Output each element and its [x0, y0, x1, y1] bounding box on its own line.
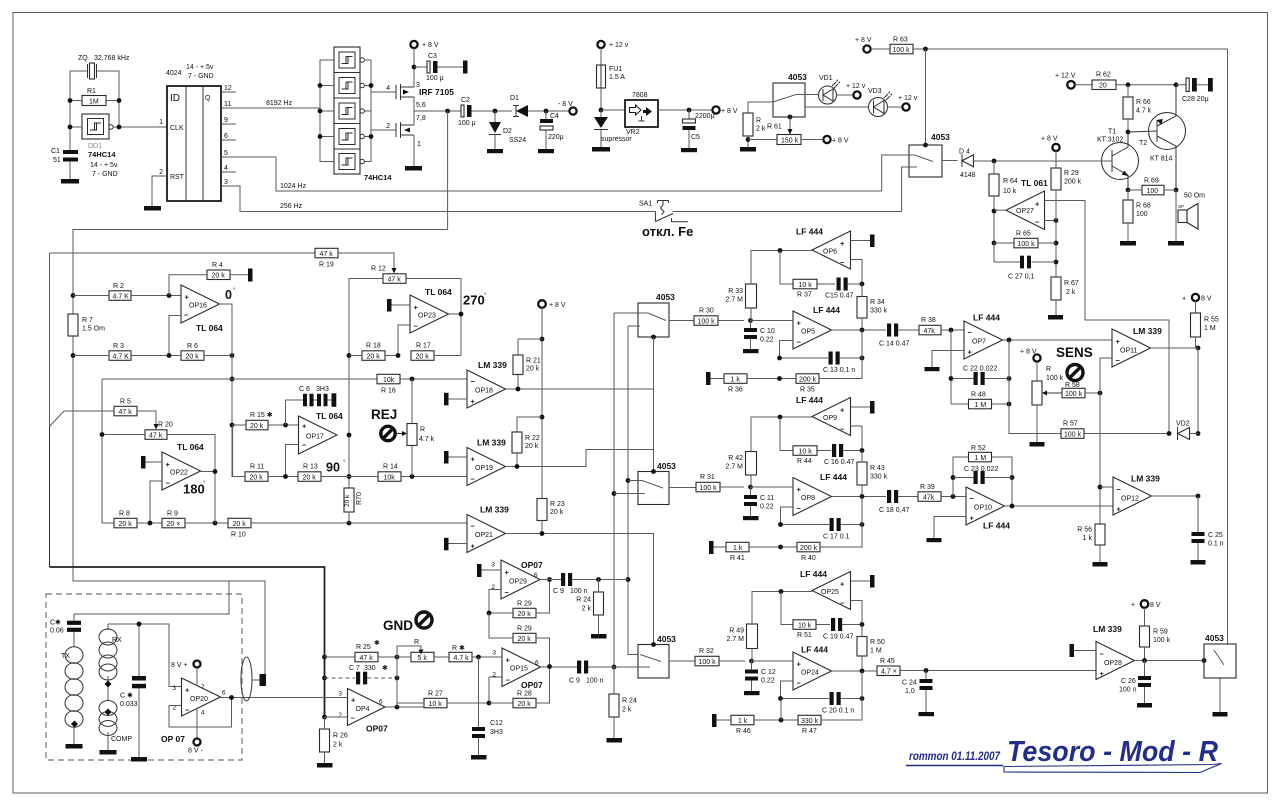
wire left bus x73	[72, 296, 74, 582]
svg-text:−: −	[506, 676, 511, 685]
svg-text:100 k: 100 k	[700, 485, 718, 492]
svg-text:1.5 A: 1.5 A	[609, 74, 625, 81]
svg-text:4: 4	[201, 710, 205, 717]
svg-text:T1: T1	[1108, 129, 1116, 136]
svg-text:7: 7	[201, 684, 205, 691]
op-amp U OP29	[501, 560, 540, 599]
terminal +8V psu	[712, 106, 719, 113]
svg-text:R 6: R 6	[187, 343, 198, 350]
svg-text:32,768 kHz: 32,768 kHz	[94, 55, 130, 62]
op-amp U OP18	[467, 370, 506, 408]
wire left bus x49	[50, 253, 316, 427]
wire OP28 out	[1135, 660, 1205, 662]
resistor R14	[378, 472, 401, 482]
svg-text:TL 064: TL 064	[196, 323, 223, 333]
svg-text:C 9: C 9	[569, 678, 580, 685]
svg-text:+: +	[970, 514, 975, 523]
svg-text:R 46: R 46	[736, 728, 751, 735]
svg-text:−: −	[471, 522, 476, 531]
resistor R2	[109, 291, 131, 301]
wire R1 row	[70, 100, 82, 102]
capacitor C2	[461, 105, 464, 117]
svg-text:R 66: R 66	[1136, 99, 1151, 106]
svg-text:2.7 M: 2.7 M	[725, 464, 743, 471]
wire OP7 plus to ground	[932, 351, 964, 368]
resistor R26	[320, 729, 330, 752]
svg-text:R1: R1	[87, 88, 96, 95]
svg-text:supressor: supressor	[601, 136, 632, 143]
svg-text:2 k: 2 k	[333, 742, 343, 749]
svg-text:✱: ✱	[382, 664, 388, 672]
svg-text:100 k: 100 k	[1153, 637, 1171, 644]
wire bus x628	[628, 326, 638, 655]
op-amp U OP4	[348, 689, 386, 726]
svg-text:6: 6	[222, 690, 226, 697]
svg-text:OP6: OP6	[823, 249, 837, 256]
wire OP15 minus	[489, 677, 502, 703]
svg-text:Tesoro - Mod - R: Tesoro - Mod - R	[1007, 736, 1218, 768]
svg-text:°: °	[203, 479, 206, 487]
svg-text:FU1: FU1	[609, 66, 622, 73]
svg-text:OP18: OP18	[475, 388, 493, 395]
svg-text:R: R	[756, 118, 761, 125]
svg-text:R 43: R 43	[870, 465, 885, 472]
svg-text:74HC14: 74HC14	[364, 173, 392, 182]
resistor R68	[1127, 190, 1129, 200]
svg-text:4.7 k: 4.7 k	[1136, 108, 1152, 115]
svg-text:R 62: R 62	[1096, 72, 1111, 79]
svg-text:+: +	[1116, 337, 1121, 346]
svg-text:C12: C12	[490, 720, 503, 727]
svg-text:R 2: R 2	[113, 283, 124, 290]
wire 256Hz left of SA1	[236, 186, 655, 212]
switch 4053 ctrl	[909, 145, 942, 177]
svg-text:330 k: 330 k	[870, 474, 888, 481]
svg-text:R 33: R 33	[728, 288, 743, 295]
svg-text:8 V -: 8 V -	[188, 748, 203, 755]
wire VD2 column	[1197, 348, 1199, 434]
svg-text:−: −	[414, 322, 419, 331]
resistor R7	[68, 314, 78, 336]
potentiometer R 100k	[1032, 381, 1042, 405]
svg-text:0.033: 0.033	[120, 701, 138, 708]
svg-text:4053: 4053	[931, 132, 950, 142]
svg-text:LF 444: LF 444	[973, 313, 1000, 323]
svg-text:−: −	[1035, 218, 1040, 227]
svg-text:LM 339: LM 339	[477, 438, 506, 448]
svg-text:R 34: R 34	[870, 299, 885, 306]
svg-text:R 21: R 21	[526, 358, 541, 365]
svg-text:74HC14: 74HC14	[88, 150, 116, 159]
resistor R33	[746, 284, 757, 308]
svg-text:OP23: OP23	[418, 313, 436, 320]
potentiometer R 5k	[411, 652, 434, 662]
svg-text:R 15 ✱: R 15 ✱	[250, 411, 273, 419]
wire OP22 out	[201, 472, 216, 524]
svg-text:330: 330	[364, 665, 376, 672]
resistor R70	[344, 488, 354, 512]
terminal +8V rail	[538, 300, 546, 308]
svg-text:R 47: R 47	[802, 728, 817, 735]
switch 4053 a	[638, 303, 669, 337]
resistor R 2k	[743, 113, 753, 136]
resistor R41	[709, 541, 714, 554]
svg-text:ID: ID	[170, 93, 180, 104]
svg-text:C 27 0,1: C 27 0,1	[1008, 274, 1035, 281]
svg-text:3: 3	[492, 650, 496, 657]
svg-text:OP20: OP20	[190, 696, 208, 703]
resistor R24a	[598, 580, 600, 593]
wire 1024Hz into 4053	[882, 155, 909, 191]
svg-text:+ 12 V: + 12 V	[1055, 73, 1076, 80]
svg-text:1,0: 1,0	[905, 688, 915, 695]
svg-text:20 k: 20 k	[367, 353, 381, 360]
resistor R47	[798, 715, 821, 725]
svg-text:20 k: 20 k	[518, 636, 532, 643]
svg-text:OP10: OP10	[974, 505, 992, 512]
svg-text:VR2: VR2	[626, 129, 640, 136]
svg-text:+ 8 V: + 8 V	[721, 108, 738, 115]
svg-text:+: +	[1182, 296, 1186, 303]
crystal ZQ	[87, 64, 89, 78]
svg-text:−: −	[797, 679, 802, 688]
svg-text:5,6: 5,6	[416, 102, 426, 109]
svg-text:R 45: R 45	[880, 658, 895, 665]
ground below MOSFET	[405, 166, 422, 171]
svg-text:4.7 k: 4.7 k	[454, 655, 470, 662]
resistor R35	[796, 374, 819, 384]
svg-text:0.1 n: 0.1 n	[1208, 541, 1224, 548]
svg-text:−: −	[840, 599, 845, 608]
svg-text:270: 270	[463, 293, 485, 308]
svg-text:C15 0.47: C15 0.47	[825, 293, 854, 300]
svg-text:−: −	[1117, 485, 1122, 494]
svg-text:C 12: C 12	[761, 669, 776, 676]
wire output rail	[364, 60, 371, 162]
resistor R39	[918, 492, 941, 502]
wire bus y379	[102, 379, 467, 523]
svg-text:1 k: 1 k	[738, 718, 748, 725]
svg-text:R 38: R 38	[921, 317, 936, 324]
svg-text:+: +	[185, 293, 190, 302]
wire OP10 out	[1005, 505, 1114, 507]
svg-text:OP19: OP19	[475, 465, 493, 472]
capacitor C28	[1176, 84, 1186, 86]
svg-text:DD1: DD1	[88, 143, 102, 150]
svg-text:R 24: R 24	[622, 698, 637, 705]
svg-text:100 k: 100 k	[893, 47, 911, 54]
svg-text:+: +	[506, 656, 511, 665]
svg-text:2200μ: 2200μ	[695, 113, 715, 120]
svg-text:20 k: 20 k	[518, 701, 532, 708]
svg-text:C 7: C 7	[349, 665, 360, 672]
capacitor C20 feedback	[781, 698, 863, 700]
svg-text:2 k: 2 k	[756, 126, 766, 133]
svg-text:OP12: OP12	[1121, 496, 1139, 503]
svg-text:330 k: 330 k	[801, 718, 819, 725]
resistor R15	[246, 420, 268, 430]
resistor R69	[1126, 188, 1131, 193]
resistor R8	[114, 518, 137, 528]
svg-text:+: +	[797, 319, 802, 328]
svg-text:R 16: R 16	[381, 388, 396, 395]
svg-text:R 31: R 31	[700, 474, 715, 481]
svg-text:4148: 4148	[960, 172, 976, 179]
svg-text:R 50: R 50	[870, 639, 885, 646]
svg-text:OP25: OP25	[821, 589, 839, 596]
svg-text:C 25: C 25	[1208, 532, 1223, 539]
svg-text:10k: 10k	[383, 377, 395, 384]
svg-text:R 19: R 19	[319, 262, 334, 269]
wire rail down to 4053	[1227, 49, 1229, 644]
svg-text:−: −	[184, 311, 189, 320]
op-amp U OP23	[410, 295, 449, 333]
switch 4053 b	[638, 472, 669, 505]
svg-text:+: +	[1117, 505, 1122, 514]
wire OP7 out	[1003, 339, 1113, 341]
svg-text:200 k: 200 k	[1064, 179, 1082, 186]
resistor R29b	[513, 633, 536, 643]
svg-text:+: +	[1131, 602, 1135, 609]
svg-text:OP27: OP27	[1016, 208, 1034, 215]
capacitor C9a	[540, 579, 561, 581]
svg-text:−: −	[471, 377, 476, 386]
capacitor C10	[750, 321, 752, 350]
svg-text:C3: C3	[428, 53, 437, 60]
svg-text:100 k: 100 k	[699, 659, 717, 666]
IC 4024	[167, 86, 221, 201]
svg-text:+: +	[471, 455, 476, 464]
resistor R49	[747, 624, 758, 649]
svg-text:+: +	[185, 686, 190, 695]
wire OP21 out	[506, 534, 654, 645]
svg-text:+ 8 V: + 8 V	[832, 138, 849, 145]
svg-text:R: R	[1046, 366, 1051, 373]
wire 8192Hz	[236, 107, 320, 109]
svg-text:OP15: OP15	[510, 666, 528, 673]
capacitor C25	[1197, 496, 1199, 560]
svg-text:10k: 10k	[384, 474, 396, 481]
svg-text:R 32: R 32	[699, 648, 714, 655]
svg-text:R 69: R 69	[1144, 178, 1159, 185]
svg-text:R 36: R 36	[728, 387, 743, 394]
wire OP20 out	[221, 697, 234, 699]
svg-text:+: +	[797, 660, 802, 669]
svg-text:1 M: 1 M	[1204, 325, 1216, 332]
resistor R25	[355, 652, 378, 662]
svg-text:50 Om: 50 Om	[1184, 193, 1205, 200]
wire OP19 out	[506, 450, 654, 467]
resistor R29 200k	[1051, 168, 1061, 190]
wire OP4 out	[385, 706, 424, 708]
capacitor C19	[831, 618, 835, 631]
ground C1	[61, 179, 79, 184]
svg-text:LF 444: LF 444	[801, 645, 828, 655]
svg-text:6: 6	[535, 660, 539, 667]
svg-text:R 14: R 14	[383, 464, 398, 471]
resistor R51	[781, 592, 830, 625]
svg-text:D 4: D 4	[959, 149, 970, 156]
resistor R23	[537, 499, 547, 521]
capacitor C12	[751, 661, 753, 691]
logo swoosh	[1004, 764, 1222, 773]
svg-text:200 k: 200 k	[799, 376, 817, 383]
svg-text:R 13: R 13	[303, 464, 318, 471]
svg-text:VD3: VD3	[868, 88, 882, 95]
svg-text:3: 3	[491, 562, 495, 569]
svg-text:20 k: 20 k	[212, 273, 226, 280]
svg-text:1 k: 1 k	[731, 376, 741, 383]
svg-text:20 k: 20 k	[186, 353, 200, 360]
svg-text:+ 8 V: + 8 V	[1041, 136, 1058, 143]
svg-text:R 8: R 8	[119, 511, 130, 518]
wire OP16 out	[220, 304, 233, 477]
resistor R32	[695, 656, 719, 666]
svg-text:1 M: 1 M	[975, 402, 987, 409]
svg-text:+: +	[1035, 200, 1040, 209]
svg-text:20 k: 20 k	[525, 443, 539, 450]
svg-text:5 k: 5 k	[418, 655, 428, 662]
fuse FU1	[597, 65, 606, 88]
svg-text:−: −	[840, 258, 845, 267]
SEC-LOGO	[906, 736, 1222, 773]
svg-text:LM 339: LM 339	[478, 360, 507, 370]
svg-text:+: +	[1100, 669, 1105, 678]
resistor R29a	[513, 608, 536, 618]
svg-text:3: 3	[224, 179, 228, 186]
svg-text:3: 3	[338, 691, 342, 698]
svg-text:1 k: 1 k	[733, 545, 743, 552]
svg-text:OP24: OP24	[801, 670, 819, 677]
svg-text:330 k: 330 k	[870, 308, 888, 315]
svg-text:C ✱: C ✱	[120, 692, 133, 700]
svg-text:−: −	[840, 425, 845, 434]
svg-text:200 k: 200 k	[800, 545, 818, 552]
terminal 8V-	[196, 710, 198, 739]
resistor R43	[857, 462, 867, 485]
resistor R36	[706, 372, 711, 385]
svg-text:20 k: 20 k	[526, 366, 540, 373]
svg-text:R 37: R 37	[797, 292, 812, 299]
wire OP5 out	[832, 329, 887, 331]
svg-text:1 k: 1 k	[1083, 535, 1093, 542]
svg-text:TL 061: TL 061	[1021, 178, 1048, 188]
svg-text:4053: 4053	[657, 461, 676, 471]
resistor R44	[780, 417, 831, 451]
capacitor C5	[688, 110, 690, 119]
svg-text:−: −	[471, 475, 476, 484]
resistor R45	[877, 666, 900, 676]
capacitor C11	[750, 487, 752, 516]
svg-text:20 k: 20 k	[250, 423, 264, 430]
svg-text:R 52: R 52	[971, 445, 986, 452]
svg-text:R 5: R 5	[120, 399, 131, 406]
svg-text:7,8: 7,8	[416, 115, 426, 122]
wire RX to OP20	[108, 624, 182, 687]
svg-text:47 k: 47 k	[320, 251, 334, 258]
capacitor C16	[832, 444, 836, 457]
svg-text:6: 6	[379, 699, 383, 706]
wire OP18 out	[506, 388, 654, 390]
svg-text:R 61: R 61	[767, 124, 782, 131]
svg-text:LM 339: LM 339	[1133, 326, 1162, 336]
svg-text:R 23: R 23	[550, 501, 565, 508]
svg-text:SENS: SENS	[1056, 345, 1093, 360]
svg-text:20 k: 20 k	[518, 611, 532, 618]
svg-text:SA1: SA1	[639, 201, 652, 208]
op-amp U OP16	[181, 285, 220, 323]
svg-text:OP16: OP16	[189, 303, 207, 310]
switch 4053 d	[1204, 644, 1236, 678]
resistor R1	[82, 96, 106, 106]
svg-text:+: +	[840, 406, 845, 415]
svg-text:✱: ✱	[374, 639, 380, 647]
op-amp U OP21	[467, 515, 506, 553]
resistor R50	[857, 637, 867, 657]
wire drain/source	[413, 51, 415, 166]
svg-text:8 V +: 8 V +	[171, 662, 188, 669]
svg-text:C 16 0.47: C 16 0.47	[824, 459, 854, 466]
svg-text:R 28: R 28	[517, 691, 532, 698]
svg-text:+: +	[797, 485, 802, 494]
svg-text:откл. Fe: откл. Fe	[642, 224, 693, 239]
wire OP20 minus loop	[169, 698, 232, 728]
svg-text:4,7 ×: 4,7 ×	[881, 669, 897, 676]
resistor R37	[780, 251, 835, 285]
svg-text:LF 444: LF 444	[796, 395, 823, 405]
resistor R38	[919, 325, 941, 335]
svg-text:R 39: R 39	[920, 484, 935, 491]
svg-text:R 9: R 9	[167, 511, 178, 518]
capacitor C17 feedback	[781, 524, 863, 526]
svg-text:20 ×: 20 ×	[167, 521, 181, 528]
resistor R19	[315, 248, 338, 257]
svg-text:20 k: 20 k	[250, 474, 264, 481]
svg-text:LF 444: LF 444	[796, 227, 823, 237]
wire DD1	[70, 126, 82, 128]
svg-text:R 10: R 10	[231, 532, 246, 539]
wire RST ground	[152, 176, 167, 206]
svg-text:3: 3	[172, 685, 176, 692]
svg-text:OP9: OP9	[823, 415, 837, 422]
svg-text:R 49: R 49	[729, 628, 744, 635]
svg-text:OP5: OP5	[801, 329, 815, 336]
potentiometer R 4.7k REJ	[407, 424, 417, 446]
capacitor C15	[837, 278, 841, 291]
svg-text:+ 8 V: + 8 V	[549, 302, 566, 309]
op-amp U OP22	[162, 452, 201, 490]
wire R63 branch down	[925, 49, 927, 145]
svg-text:R 3: R 3	[113, 343, 124, 350]
svg-text:47 k: 47 k	[388, 276, 402, 283]
svg-text:LF 444: LF 444	[983, 521, 1010, 531]
resistor R46	[712, 714, 717, 727]
svg-text:R 65: R 65	[1016, 231, 1031, 238]
svg-text:20 k: 20 k	[119, 521, 133, 528]
resistor R42	[746, 452, 757, 476]
svg-text:3H3: 3H3	[316, 386, 329, 393]
svg-text:°: °	[343, 458, 346, 466]
svg-text:4.7 K: 4.7 K	[113, 353, 130, 360]
capacitor C6 3H3	[286, 400, 332, 425]
svg-text:R 29: R 29	[1064, 170, 1079, 177]
svg-text:7 - GND: 7 - GND	[188, 73, 214, 80]
svg-text:C5: C5	[691, 134, 700, 141]
svg-text:2.7 M: 2.7 M	[725, 297, 743, 304]
svg-text:10 k: 10 k	[799, 448, 813, 455]
svg-text:1 M: 1 M	[870, 648, 882, 655]
svg-text:10 k: 10 k	[799, 282, 813, 289]
